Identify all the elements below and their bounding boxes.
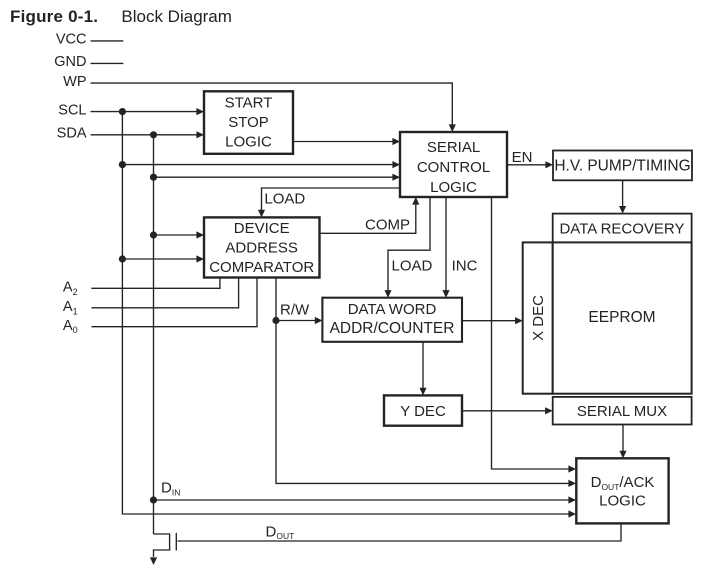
svg-text:SDA: SDA [57, 126, 87, 142]
svg-text:SERIAL MUX: SERIAL MUX [577, 403, 667, 420]
wire EN [507, 164, 547, 166]
junction dot SCL-comparator [119, 255, 126, 262]
svg-text:LOAD: LOAD [392, 258, 433, 275]
wire A0 [91, 278, 257, 327]
junction dot SCL-serial [119, 161, 126, 168]
junction dot SCL [119, 108, 126, 115]
svg-text:Block Diagram: Block Diagram [121, 7, 232, 26]
wire serial control to dout-ack [492, 197, 571, 469]
svg-text:A0: A0 [63, 318, 78, 335]
svg-text:A2: A2 [63, 280, 78, 297]
svg-text:DIN: DIN [161, 480, 180, 498]
wire data word to Y dec [422, 342, 424, 390]
wire start-stop to serial control [293, 141, 393, 143]
svg-text:LOGIC: LOGIC [599, 492, 646, 509]
wire SDA to comparator [154, 234, 198, 236]
svg-text:EN: EN [512, 149, 533, 166]
wire LOAD to data word counter [388, 197, 430, 292]
junction dot SDA [150, 131, 157, 138]
svg-text:A1: A1 [63, 299, 78, 316]
wire data word to X dec [462, 320, 517, 322]
wire D_IN [154, 499, 571, 501]
wire SCL bus vertical [122, 112, 570, 514]
svg-text:GND: GND [54, 54, 86, 70]
svg-text:SERIAL: SERIAL [427, 139, 480, 156]
wire WP [91, 83, 453, 127]
wire INC [445, 197, 447, 292]
svg-text:LOGIC: LOGIC [225, 133, 272, 150]
svg-text:DOUT/ACK: DOUT/ACK [591, 474, 655, 492]
svg-text:LOGIC: LOGIC [430, 179, 477, 196]
svg-text:H.V. PUMP/TIMING: H.V. PUMP/TIMING [554, 158, 690, 175]
svg-text:STOP: STOP [228, 114, 269, 131]
svg-text:DOUT: DOUT [266, 523, 295, 541]
wire SDA [91, 134, 198, 136]
svg-text:ADDR/COUNTER: ADDR/COUNTER [330, 320, 455, 337]
wire VCC stub [91, 40, 124, 42]
box HV PUMP TIMING [553, 151, 692, 181]
wire SCL [91, 111, 198, 113]
box X DEC [523, 242, 553, 393]
svg-text:LOAD: LOAD [264, 190, 305, 207]
svg-text:DATA WORD: DATA WORD [348, 301, 437, 318]
wire serial mux to dout-ack [622, 425, 624, 453]
wire HV pump to data recovery [622, 180, 624, 208]
svg-text:VCC: VCC [56, 32, 87, 48]
svg-text:DEVICE: DEVICE [234, 220, 290, 237]
box DATA RECOVERY [553, 214, 692, 243]
svg-text:R/W: R/W [280, 302, 310, 319]
svg-text:INC: INC [452, 258, 478, 275]
wire COMP [320, 204, 416, 234]
junction dot SDA-serial [150, 174, 157, 181]
svg-text:ADDRESS: ADDRESS [225, 240, 298, 257]
svg-text:WP: WP [63, 74, 86, 90]
wire R/W to addr counter [276, 320, 316, 322]
svg-text:COMP: COMP [365, 217, 410, 234]
transistor output driver [154, 534, 170, 557]
wire R/W vertical to dout-ack [276, 278, 570, 484]
svg-text:CONTROL: CONTROL [417, 159, 490, 176]
box DOUT ACK LOGIC [576, 458, 668, 523]
svg-text:DATA RECOVERY: DATA RECOVERY [559, 220, 684, 237]
svg-text:SCL: SCL [58, 103, 86, 119]
junction dot D_IN [150, 496, 157, 503]
svg-text:EEPROM: EEPROM [588, 309, 655, 326]
box START STOP LOGIC [204, 91, 293, 154]
box DEVICE ADDRESS COMPARATOR [204, 217, 320, 277]
box DATA WORD ADDR COUNTER [322, 298, 462, 342]
junction dot R/W [272, 317, 279, 324]
wire SCL to comparator [122, 258, 197, 260]
wire SDA to serial control [154, 176, 394, 178]
svg-text:X DEC: X DEC [530, 295, 547, 341]
wire A2 [91, 278, 220, 289]
svg-text:COMPARATOR: COMPARATOR [209, 259, 314, 276]
svg-text:START: START [225, 94, 273, 111]
box SERIAL MUX [553, 397, 692, 425]
wire D_OUT [178, 523, 622, 541]
wire Y dec to serial mux [462, 410, 547, 412]
wire SCL to serial control [122, 164, 393, 166]
wire A1 [91, 278, 238, 308]
box SERIAL CONTROL LOGIC [400, 132, 507, 197]
svg-text:Figure 0-1.: Figure 0-1. [10, 7, 98, 26]
svg-text:Y DEC: Y DEC [400, 403, 446, 420]
box EEPROM [553, 242, 692, 393]
wire GND stub [91, 62, 124, 64]
junction dot SDA-comparator [150, 231, 157, 238]
wire LOAD to comparator [262, 188, 401, 211]
wire SDA bus vertical [153, 135, 155, 534]
box Y DEC [384, 395, 462, 425]
